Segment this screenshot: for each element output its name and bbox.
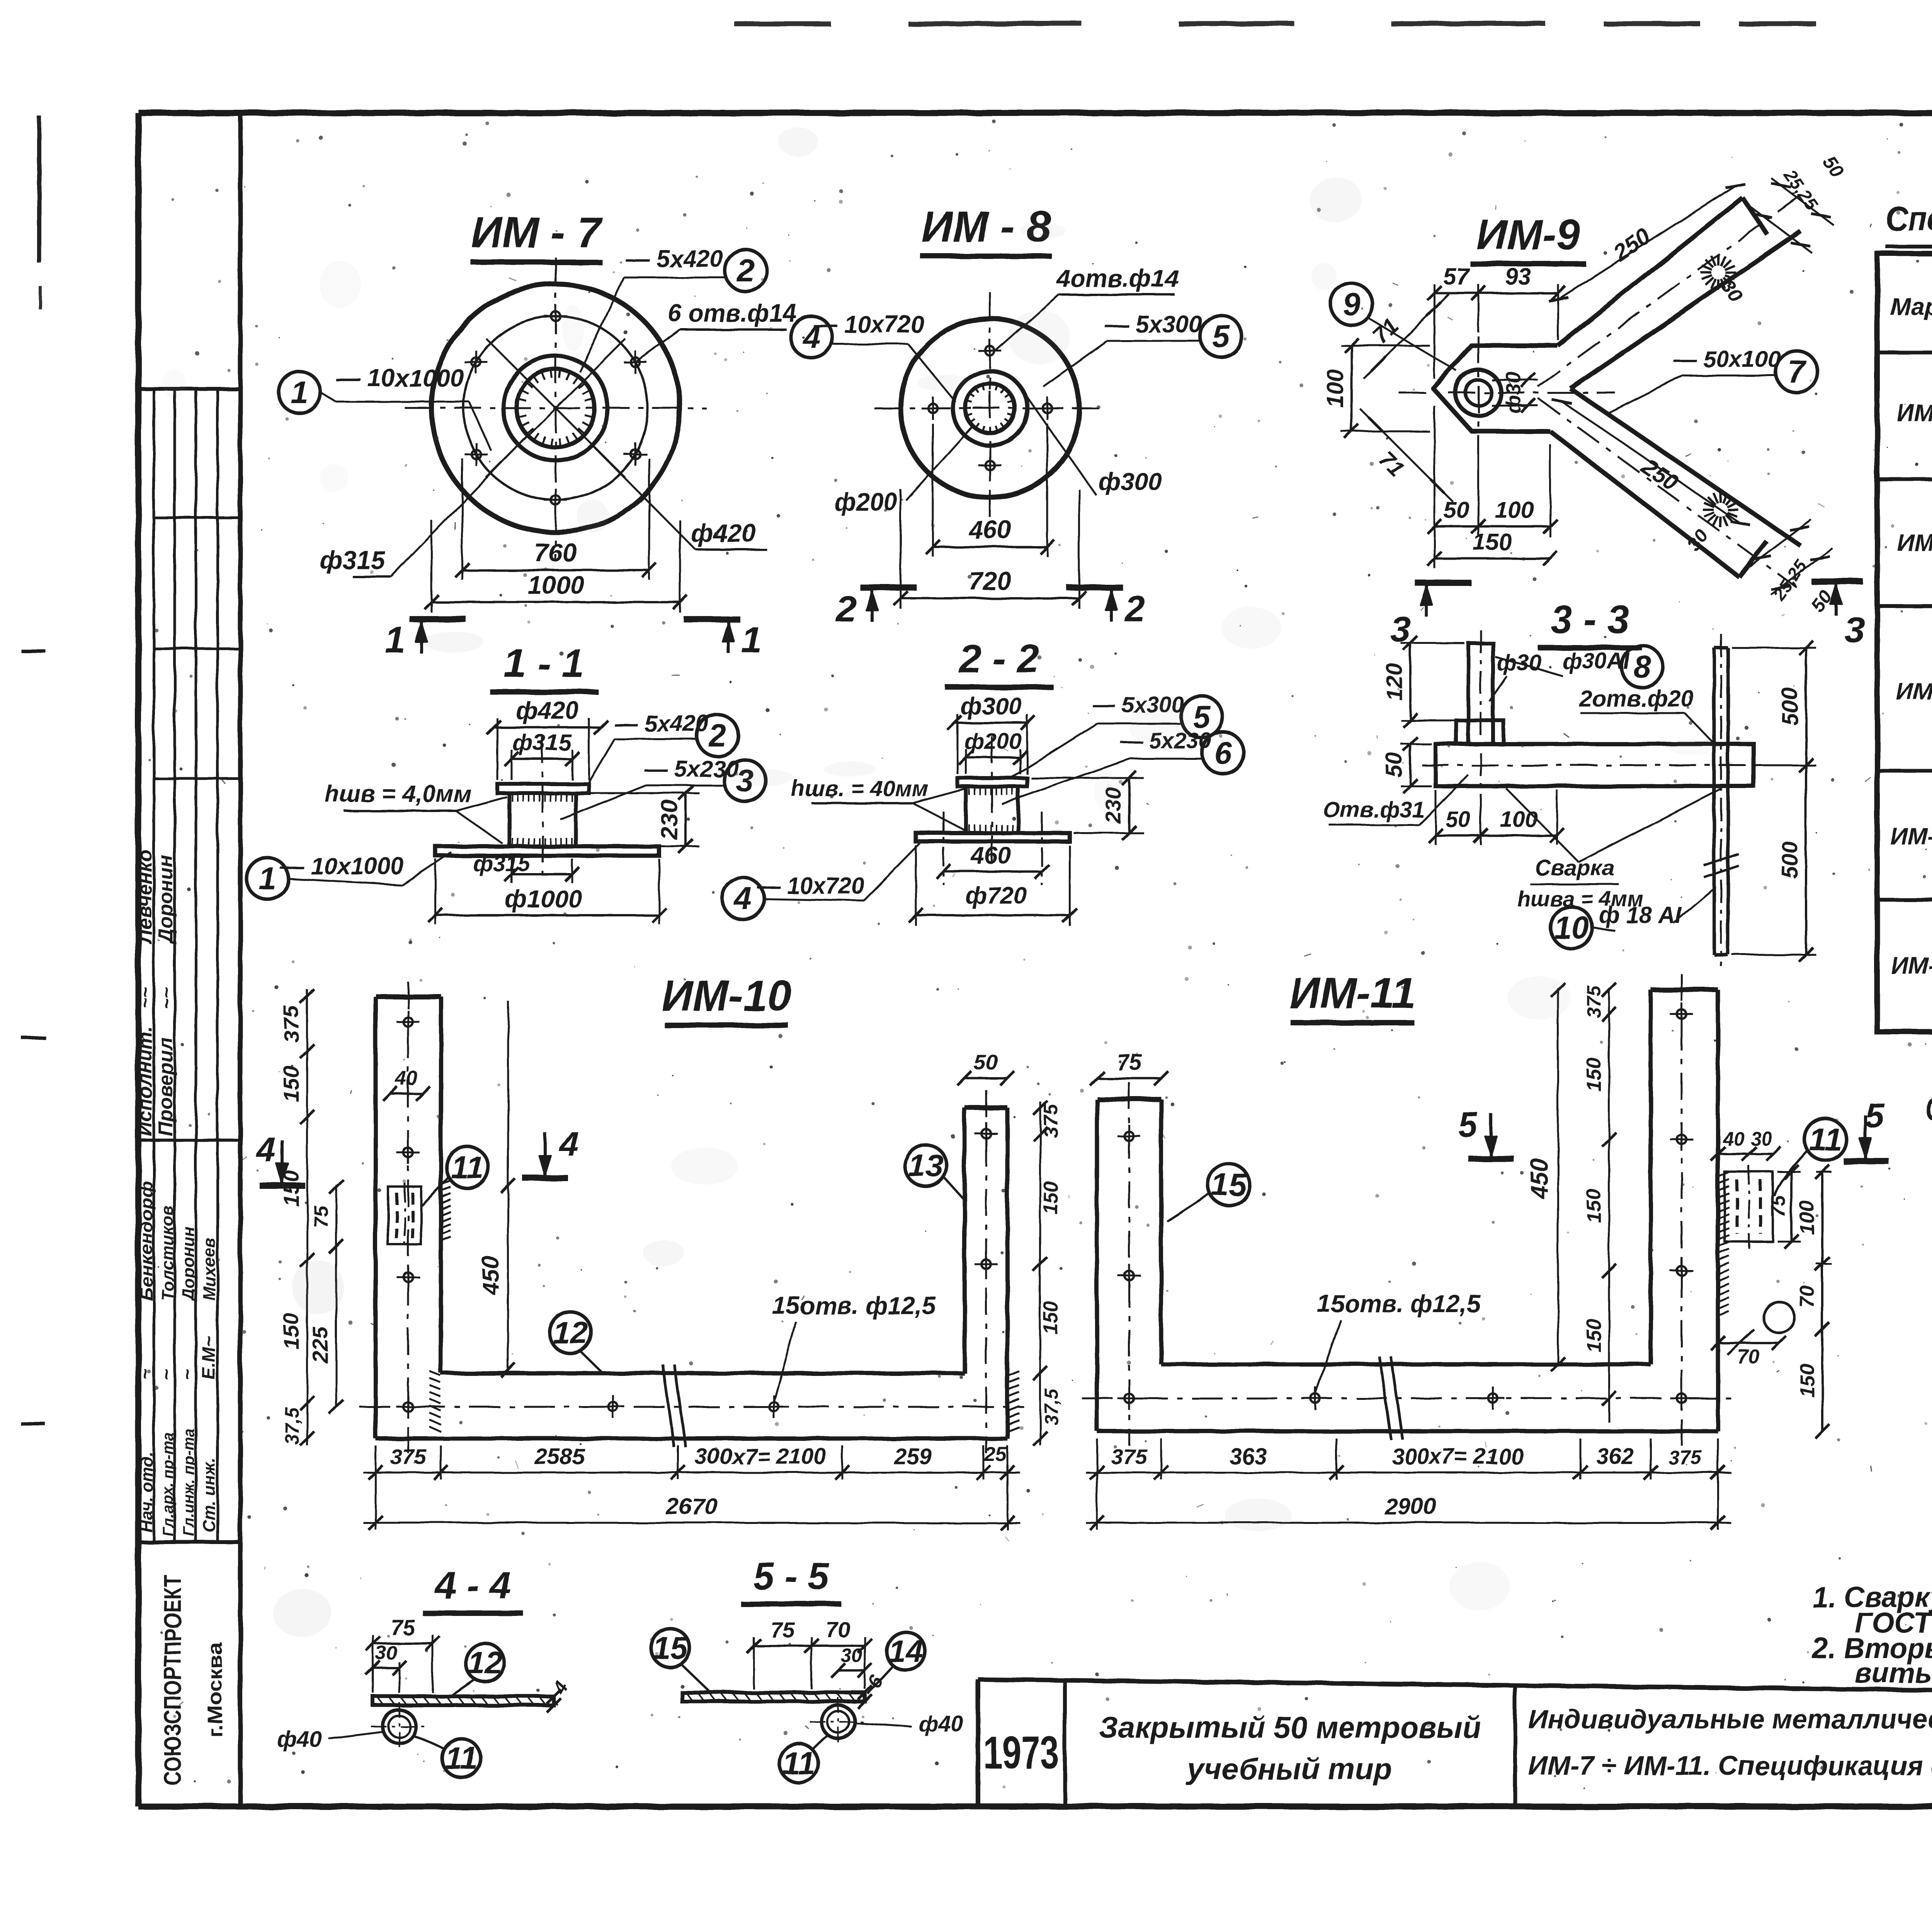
ИМ-9 section marks 3 (1415, 580, 1471, 586)
svg-text:ф420: ф420 (691, 519, 756, 547)
svg-text:~: ~ (156, 1369, 177, 1380)
svg-text:12: 12 (467, 1645, 502, 1680)
svg-text:ИМ-7: ИМ-7 (1897, 400, 1932, 427)
ИМ-8 dim 720 (900, 489, 902, 609)
svg-text:57: 57 (1444, 264, 1470, 289)
svg-text:70: 70 (1796, 1285, 1818, 1308)
svg-text:362: 362 (1597, 1444, 1634, 1469)
svg-text:50: 50 (1444, 497, 1469, 523)
ИМ-11 dim 75 top (1097, 1077, 1161, 1079)
svg-text:ИМ-8: ИМ-8 (1897, 529, 1932, 556)
ИМ-11 left post (1097, 1097, 1161, 1102)
svg-text:37,5: 37,5 (1041, 1388, 1062, 1425)
svg-text:Левченко: Левченко (134, 850, 156, 945)
ИМ-10 left post centerline (407, 982, 409, 1453)
ИМ-10 left dim chain (306, 989, 308, 1445)
section 5-5 callout 15 (651, 1629, 690, 1667)
svg-text:Гл.инж. пр-та: Гл.инж. пр-та (180, 1428, 197, 1536)
ИМ-10 left weld ticks (430, 1371, 441, 1376)
section 2-2 dim 460 lower (944, 870, 1042, 873)
ИМ-11 bar holes (1124, 1394, 1134, 1403)
ИМ-10 dim 40 top (390, 1093, 423, 1095)
svg-text:363: 363 (1230, 1444, 1267, 1469)
svg-text:Спецификация стали на одно изд: Спецификация стали на одно изделие (1886, 199, 1932, 238)
svg-text:ИМ-7 ÷ ИМ-11. Спецификация: ИМ-7 ÷ ИМ-11. Спецификация стали (1528, 1750, 1932, 1781)
svg-text:2: 2 (708, 718, 726, 753)
ИМ-11 right inner dim chain (1608, 990, 1610, 1422)
svg-text:75: 75 (310, 1205, 332, 1228)
svg-text:12: 12 (553, 1315, 588, 1350)
ИМ-8 section marks 2 (860, 584, 917, 591)
svg-text:4отв.ф14: 4отв.ф14 (1056, 264, 1179, 292)
svg-text:hшв. = 40мм: hшв. = 40мм (791, 776, 929, 801)
section 3-3 label ф30AI callout 8 (1621, 646, 1663, 688)
section 1-1 centerline (542, 736, 544, 875)
svg-text:450: 450 (478, 1256, 503, 1295)
ИМ-7 plan view circles (432, 284, 680, 532)
section 3-3 dims 50 100 bottom (1435, 790, 1437, 845)
section 2-2 callout 5 (1181, 696, 1223, 738)
svg-text:ф315: ф315 (473, 851, 531, 876)
svg-text:ИМ-9: ИМ-9 (1896, 678, 1932, 705)
svg-text:ф420: ф420 (516, 696, 579, 724)
svg-text:150: 150 (1040, 1301, 1062, 1335)
svg-text:Закрытый 50 метровый: Закрытый 50 метровый (1099, 1710, 1481, 1744)
svg-text:30: 30 (375, 1642, 397, 1663)
ИМ-9 dim 100 left (1341, 345, 1430, 347)
ИМ-11 left post holes (1124, 1132, 1134, 1141)
ИМ-10 inner dims 225 75 (335, 1185, 337, 1407)
section 2-2 cylinder 5x230 (964, 787, 968, 833)
section 1-1 cylinder 5x230 (507, 793, 511, 846)
svg-text:Отв.ф31: Отв.ф31 (1323, 797, 1425, 822)
svg-text:14: 14 (888, 1634, 923, 1669)
svg-text:— 10х720: — 10х720 (813, 311, 924, 338)
svg-text:ф300: ф300 (961, 693, 1022, 720)
svg-text:1 - 1: 1 - 1 (504, 641, 584, 686)
ИМ-10 left post holes (403, 1017, 413, 1027)
svg-text:25: 25 (984, 1443, 1007, 1466)
ИМ-11 right post weld ticks (1718, 1172, 1729, 1177)
ИМ-11 bottom total dim (1086, 1522, 1731, 1524)
ИМ-9 serrated end upper (1725, 271, 1736, 274)
section 5-5 tube (821, 1705, 855, 1738)
ИМ-11 right post (1651, 987, 1718, 993)
svg-text:8: 8 (1633, 649, 1651, 684)
svg-text:75: 75 (770, 1617, 795, 1642)
ИМ-10 callout 12 (549, 1312, 591, 1353)
ИМ-11 callout 15 (1208, 1164, 1250, 1205)
section 3-3 callout 10 ф18AI (1551, 907, 1592, 948)
ИМ-10 right post centerline (985, 1090, 987, 1453)
svg-text:15: 15 (653, 1631, 689, 1666)
svg-text:— 5х230: — 5х230 (644, 756, 739, 782)
svg-text:11: 11 (1809, 1122, 1842, 1157)
ИМ-9 dims 57 93 (1434, 284, 1435, 379)
section 3-3 pin centerline (1480, 630, 1482, 808)
ИМ-7 callout 2 -5x420 (725, 250, 767, 291)
svg-text:4 - 4: 4 - 4 (434, 1564, 511, 1607)
svg-text:9: 9 (1343, 287, 1361, 322)
ИМ-9 serrated end lower (1727, 508, 1738, 511)
ИМ-11 slot dims (1718, 1153, 1749, 1155)
svg-text:Нач. отд.: Нач. отд. (137, 1451, 156, 1532)
svg-text:— 10х1000: — 10х1000 (336, 364, 464, 392)
svg-text:100: 100 (1500, 807, 1538, 832)
svg-text:2670: 2670 (665, 1493, 717, 1519)
section 1-1 callout 1 (247, 858, 288, 899)
svg-text:460: 460 (968, 515, 1011, 544)
ИМ-10 right post weld ticks (1007, 1371, 1019, 1376)
svg-text:ИМ - 7: ИМ - 7 (471, 208, 603, 257)
svg-text:2: 2 (1124, 589, 1146, 630)
ИМ-9 hub outline (1433, 346, 1558, 431)
section 1-1 callout 3 (724, 760, 766, 802)
svg-text:3: 3 (1845, 609, 1865, 650)
ИМ-10 callout 13 (905, 1145, 947, 1187)
svg-text:~: ~ (135, 1369, 156, 1380)
svg-text:1973: 1973 (983, 1727, 1059, 1778)
svg-text:40: 40 (1722, 1128, 1744, 1149)
svg-text:Проверил: Проверил (155, 1037, 177, 1136)
ИМ-7 dim 760 (461, 458, 463, 580)
ИМ-9 dim 250 upper (1558, 186, 1735, 299)
ИМ-8 dim 460 (932, 424, 934, 557)
svg-text:— 50х100: — 50х100 (1673, 346, 1781, 372)
section 3-3 right rod (1713, 648, 1716, 955)
svg-text:150: 150 (279, 1313, 303, 1349)
svg-text:375: 375 (1668, 1446, 1702, 1469)
ИМ-10 bar centerline (359, 1406, 1024, 1408)
svg-text:Спецификация металлических изд: Спецификация металлических изделий, (1925, 1091, 1932, 1127)
ИМ-9 centerlines (1399, 392, 1615, 394)
svg-text:5: 5 (1458, 1105, 1478, 1144)
svg-text:70: 70 (826, 1617, 850, 1642)
ИМ-10 dim 50 right top (964, 1077, 1007, 1079)
svg-text:ИМ-10: ИМ-10 (1890, 823, 1932, 850)
section 4-4 tube (383, 1710, 416, 1743)
svg-text:— 5х420: — 5х420 (614, 710, 709, 736)
svg-text:150: 150 (1796, 1364, 1818, 1397)
svg-text:г.Москва: г.Москва (204, 1642, 226, 1737)
ИМ-11 slot detail right (1725, 1172, 1773, 1241)
svg-text:50: 50 (974, 1050, 998, 1074)
ИМ-11 dim 450 (1557, 988, 1559, 1364)
svg-text:375: 375 (1583, 985, 1605, 1018)
ИМ-10 callout 11 (447, 1147, 488, 1188)
svg-text:15отв. ф12,5: 15отв. ф12,5 (772, 1292, 936, 1319)
svg-text:150: 150 (1040, 1182, 1062, 1215)
svg-text:1: 1 (291, 375, 308, 410)
section 1-1 top plate 5x420 (497, 784, 589, 793)
svg-text:— 10х720: — 10х720 (757, 873, 864, 899)
ИМ-10 right dim chain (1039, 1102, 1041, 1445)
section 4-4 plate (373, 1696, 554, 1705)
svg-text:150: 150 (1473, 529, 1512, 555)
section 2-2 dim ф720 (915, 845, 917, 926)
svg-text:11: 11 (782, 1746, 815, 1781)
svg-text:375: 375 (1040, 1104, 1062, 1138)
svg-text:6: 6 (1214, 735, 1232, 771)
section 4-4 callout 12 (466, 1643, 504, 1682)
svg-text:ф300: ф300 (1099, 468, 1162, 495)
svg-text:375: 375 (390, 1444, 426, 1469)
ИМ-11 right post centerline (1681, 974, 1683, 1445)
svg-text:150: 150 (1583, 1319, 1605, 1352)
svg-text:225: 225 (308, 1326, 332, 1363)
svg-text:5: 5 (1865, 1097, 1885, 1136)
ИМ-8 callout 5 -5x300 (1200, 315, 1242, 357)
section 1-1 base plate 10x1000 (435, 846, 659, 856)
ИМ-9 lower arm (1550, 431, 1739, 577)
ИМ-9 dim 71 upper (1364, 294, 1449, 379)
section 2-2 dim 230 right (1031, 777, 1144, 779)
svg-text:75: 75 (1767, 1195, 1790, 1218)
svg-text:1: 1 (742, 620, 762, 661)
svg-text:4: 4 (733, 881, 752, 916)
svg-text:15: 15 (1211, 1167, 1247, 1202)
svg-text:4: 4 (255, 1130, 276, 1169)
svg-text:500: 500 (1777, 688, 1803, 725)
svg-text:50: 50 (1446, 807, 1471, 832)
steel spec table grid (1877, 254, 1932, 1032)
section 5-5 callout 11 (779, 1744, 818, 1783)
svg-text:~: ~ (177, 1369, 197, 1380)
svg-text:2900: 2900 (1384, 1493, 1436, 1519)
svg-text:75: 75 (391, 1615, 415, 1639)
svg-text:7: 7 (1788, 354, 1807, 390)
paper stains (918, 375, 969, 392)
ИМ-8 centerlines (874, 407, 1106, 409)
svg-text:100: 100 (1322, 369, 1348, 408)
section 1-1 dim ф420 (497, 718, 498, 780)
ИМ-7 dim 1000 (431, 520, 433, 613)
ИМ-9 dims 50 100 150 bottom (1434, 406, 1435, 568)
ИМ-7 bolt holes 6x (631, 358, 640, 367)
svg-text:50: 50 (1382, 752, 1407, 778)
ИМ-9 dim 71 lower (1360, 409, 1453, 502)
section 1-1 callout 2 (697, 715, 738, 756)
svg-text:720: 720 (969, 567, 1011, 595)
svg-text:Толстиков: Толстиков (158, 1206, 177, 1301)
ИМ-7 diagonals (486, 339, 625, 478)
svg-text:Гл.арх. пр-та: Гл.арх. пр-та (160, 1432, 177, 1536)
ИМ-9 arm end dims lower (1750, 520, 1811, 566)
svg-text:ИМ-9: ИМ-9 (1476, 211, 1580, 259)
svg-text:Доронин: Доронин (155, 855, 177, 945)
section 3-3 dims 500 right (1732, 647, 1816, 649)
svg-text:ф720: ф720 (966, 882, 1027, 909)
svg-text:10: 10 (1554, 910, 1589, 945)
ИМ-11 bar break (1379, 1357, 1391, 1440)
svg-text:ф1000: ф1000 (505, 885, 582, 913)
svg-text:300х7= 2100: 300х7= 2100 (695, 1444, 826, 1469)
ИМ-10 right post (964, 1105, 1007, 1110)
section 5-5 callout 14 (886, 1632, 925, 1670)
svg-text:— 5х420: — 5х420 (625, 245, 723, 272)
svg-text:СОЮЗСПОРТПРОЕКТ: СОЮЗСПОРТПРОЕКТ (160, 1575, 186, 1786)
svg-text:ф 18 АI: ф 18 АI (1599, 902, 1682, 928)
ИМ-9 arm centerline upper (1538, 195, 1801, 386)
svg-text:4: 4 (558, 1125, 578, 1163)
ИМ-10 right post holes (981, 1129, 991, 1138)
ИМ-10 dim 450 mid (507, 1001, 509, 1373)
section 1-1 dim ф315 lower (511, 859, 513, 883)
ИМ-9 callout 9 (1331, 283, 1372, 325)
svg-text:760: 760 (534, 538, 577, 567)
svg-text:5: 5 (1212, 319, 1230, 354)
ИМ-10 slot weld ticks (441, 1181, 451, 1185)
ИМ-7 callout 1 -10x1000 (279, 371, 320, 413)
svg-text:2: 2 (835, 589, 857, 630)
svg-text:ф40: ф40 (277, 1727, 322, 1752)
svg-text:~~: ~~ (135, 987, 156, 1009)
ИМ-11 section marks 5 (1489, 1113, 1492, 1156)
svg-text:150: 150 (1583, 1189, 1605, 1223)
svg-text:Е.М~: Е.М~ (199, 1336, 219, 1380)
svg-text:Ст. инж.: Ст. инж. (200, 1458, 219, 1532)
svg-text:230: 230 (656, 800, 683, 840)
ИМ-7 centerlines (405, 407, 706, 409)
svg-text:93: 93 (1505, 264, 1531, 289)
ИМ-8 plan circles (901, 319, 1079, 497)
section 1-1 dim ф1000 (435, 859, 437, 924)
drawing frame border (138, 110, 1932, 116)
stamp column (238, 113, 243, 1806)
svg-text:100: 100 (1495, 497, 1534, 523)
svg-text:ф40: ф40 (918, 1711, 963, 1737)
ИМ-10 bar break (663, 1364, 674, 1447)
svg-text:hшв = 4,0мм: hшв = 4,0мм (325, 781, 471, 807)
ИМ-11 right post holes (1677, 1010, 1686, 1019)
svg-text:120: 120 (1382, 663, 1407, 701)
section 3-3 pin (1468, 643, 1493, 744)
svg-text:1: 1 (259, 861, 276, 896)
svg-text:13: 13 (908, 1148, 943, 1183)
svg-text:Индивидуальные металлические: Индивидуальные металлические изделия (1528, 1704, 1932, 1734)
ИМ-11 bar centerline (1082, 1398, 1735, 1399)
svg-text:2585: 2585 (534, 1444, 585, 1469)
svg-text:150: 150 (1583, 1058, 1605, 1091)
ИМ-10 slot detail (388, 1187, 421, 1245)
svg-text:450: 450 (1526, 1159, 1553, 1199)
svg-text:30: 30 (841, 1645, 862, 1666)
svg-text:375: 375 (279, 1006, 303, 1042)
svg-text:5 - 5: 5 - 5 (753, 1555, 830, 1597)
ИМ-11 bottom dim chain (1086, 1472, 1731, 1474)
svg-text:37,5: 37,5 (281, 1407, 303, 1445)
ИМ-9 arm end dims upper (1750, 207, 1812, 253)
ИМ-11 small marker circle (1764, 1302, 1794, 1333)
svg-text:30: 30 (1750, 1128, 1772, 1149)
ИМ-7 section marks 1 (410, 616, 466, 622)
section 4-4 callout 11 (442, 1739, 481, 1777)
svg-text:1: 1 (385, 620, 405, 661)
svg-text:ИМ-10: ИМ-10 (662, 972, 791, 1020)
svg-text:ф315: ф315 (320, 546, 386, 574)
section 2-2 centerline (991, 736, 993, 870)
title block frame (978, 1679, 1932, 1697)
svg-text:вить зеркально данному черт: вить зеркально данному чертежу. (1855, 1657, 1932, 1689)
section 2-2 base plate 10x720 (916, 833, 1070, 841)
svg-text:300х7= 2100: 300х7= 2100 (1392, 1444, 1523, 1469)
svg-text:учебный тир: учебный тир (1186, 1752, 1392, 1786)
ИМ-8 weld ticks (1009, 407, 1015, 409)
svg-text:ф200: ф200 (964, 729, 1022, 754)
svg-text:460: 460 (970, 843, 1011, 869)
section 1-1 dim 230 (580, 792, 699, 794)
svg-text:259: 259 (894, 1444, 932, 1469)
svg-text:150: 150 (279, 1170, 303, 1206)
ИМ-9 arm centerline lower (1538, 398, 1797, 587)
svg-text:~~: ~~ (156, 987, 177, 1009)
svg-text:11: 11 (445, 1741, 478, 1776)
svg-text:500: 500 (1777, 841, 1803, 879)
section 3-3 dim 50 left (1401, 743, 1432, 745)
ИМ-11 callout 11 right (1804, 1119, 1846, 1160)
svg-text:ИМ-11: ИМ-11 (1891, 953, 1932, 979)
svg-text:2: 2 (736, 253, 755, 288)
svg-text:— 5х300: — 5х300 (1104, 311, 1202, 338)
ИМ-10 bar (441, 1371, 964, 1376)
svg-text:6 отв.ф14: 6 отв.ф14 (668, 299, 797, 327)
ИМ-10 bottom total dim (363, 1522, 1020, 1524)
scan edge artifacts (734, 21, 831, 26)
ИМ-8 callout 4 -10x720 (791, 316, 832, 358)
svg-text:150: 150 (279, 1066, 303, 1102)
svg-text:375: 375 (1111, 1444, 1147, 1469)
svg-text:3 - 3: 3 - 3 (1551, 598, 1629, 642)
svg-text:ф200: ф200 (834, 488, 897, 516)
svg-text:Марка: Марка (1890, 293, 1932, 320)
section 5-5 dims (753, 1637, 755, 1689)
section 2-2 callout 4 (722, 878, 764, 919)
ИМ-9 dim 250 lower (1561, 401, 1740, 523)
ИМ-8 bolt holes 4x (1043, 403, 1052, 413)
svg-text:70: 70 (1737, 1346, 1760, 1368)
svg-text:1000: 1000 (527, 570, 584, 599)
ИМ-10 section marks 4 (543, 1132, 546, 1176)
svg-text:2 - 2: 2 - 2 (958, 637, 1039, 681)
ИМ-10 left post (376, 994, 441, 999)
svg-text:40: 40 (395, 1067, 418, 1090)
svg-text:100: 100 (1796, 1201, 1818, 1235)
section 5-5 plate (682, 1692, 865, 1701)
section 2-2 callout 6 (1202, 732, 1244, 774)
ИМ-11 left post centerline (1128, 1082, 1130, 1445)
svg-text:Бенкендорф: Бенкендорф (137, 1181, 156, 1301)
section 3-3 bar (1435, 744, 1753, 786)
ИМ-7 weld ticks ring (586, 407, 595, 409)
svg-text:ф30: ф30 (1502, 372, 1525, 414)
svg-text:11: 11 (451, 1150, 484, 1185)
svg-text:Исполнит.: Исполнит. (134, 1026, 156, 1136)
svg-text:Доронин: Доронин (179, 1226, 198, 1302)
svg-text:— 10х1000: — 10х1000 (280, 853, 404, 880)
ИМ-9 hub circles (1456, 370, 1501, 415)
section 2-2 dim ф300 (957, 714, 959, 774)
ИМ-9 upper arm (1558, 198, 1743, 346)
section 2-2 dim ф200 (965, 749, 967, 774)
section 2-2 top plate 5x300 (957, 778, 1027, 787)
ИМ-11 bar (1161, 1362, 1651, 1367)
section 4-4 dims (372, 1635, 374, 1693)
svg-text:ИМ-11: ИМ-11 (1289, 969, 1415, 1017)
ИМ-10 bottom dim chain (363, 1472, 1020, 1474)
section 3-3 dim 120 (1401, 642, 1464, 644)
ИМ-10 bar holes (403, 1402, 413, 1411)
ИМ-9 callout 7 -50x100 (1776, 351, 1818, 393)
